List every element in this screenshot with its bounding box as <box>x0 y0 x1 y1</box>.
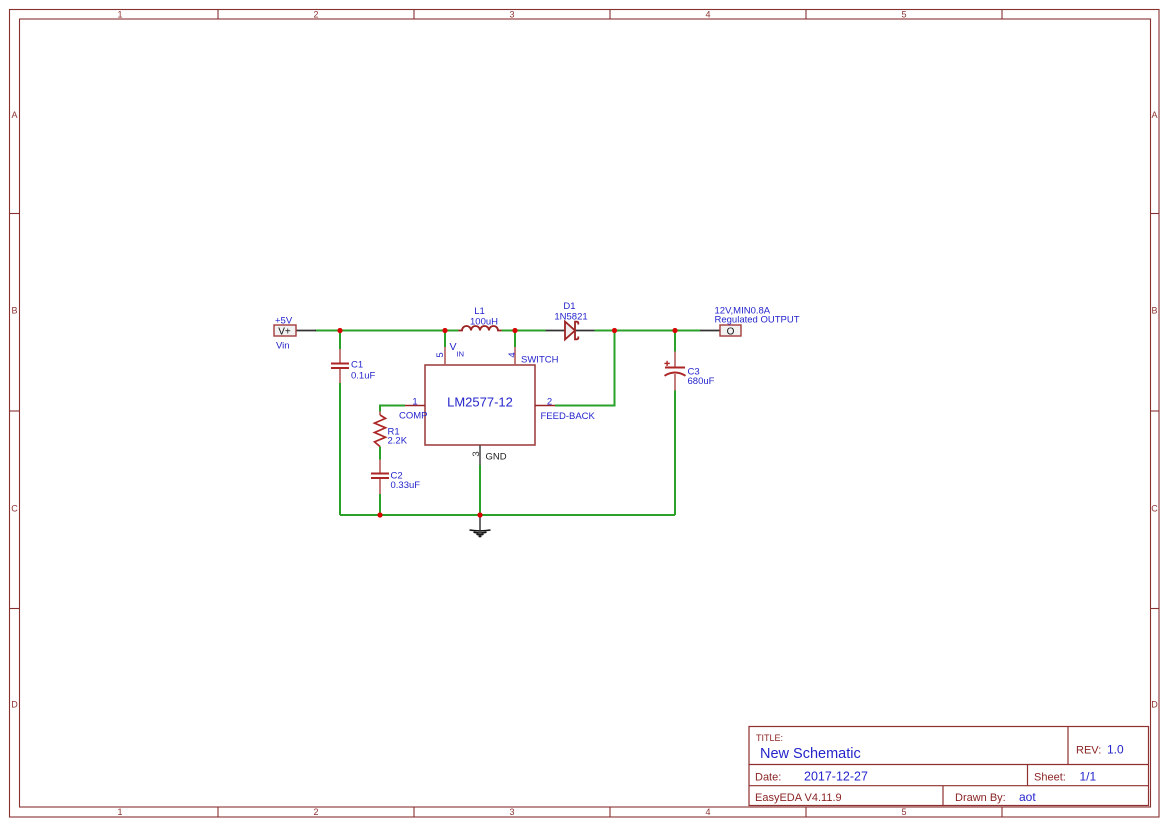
capacitor C1 <box>339 349 341 383</box>
svg-text:2: 2 <box>313 807 318 817</box>
svg-text:5: 5 <box>901 10 906 20</box>
svg-text:COMP: COMP <box>399 411 428 422</box>
svg-text:C1: C1 <box>351 360 363 371</box>
svg-text:680uF: 680uF <box>688 376 715 387</box>
svg-text:4: 4 <box>705 807 710 817</box>
svg-text:1: 1 <box>117 10 122 20</box>
svg-text:GND: GND <box>486 452 507 463</box>
svg-text:REV:: REV: <box>1076 745 1101 757</box>
wire C3 bottom to rail <box>674 391 676 516</box>
svg-text:B: B <box>1151 306 1157 316</box>
U1 pin 1 COMP <box>405 405 425 407</box>
U1 pin 2 FEED-BACK <box>535 405 555 407</box>
svg-text:1: 1 <box>117 807 122 817</box>
label C1 value <box>351 360 375 382</box>
svg-text:New Schematic: New Schematic <box>760 746 861 762</box>
wire net VIN top <box>315 330 700 332</box>
svg-text:5: 5 <box>435 352 446 357</box>
wire C1 bottom to ground rail <box>339 383 341 515</box>
U1 pin 3 GND <box>479 445 481 465</box>
junction C1/VIN <box>337 328 342 333</box>
wire C3 branch top <box>674 331 676 352</box>
svg-text:SWITCH: SWITCH <box>521 355 559 366</box>
svg-text:L1: L1 <box>474 306 485 317</box>
svg-text:4: 4 <box>705 10 710 20</box>
wire GND pin to rail <box>479 465 481 515</box>
svg-text:V+: V+ <box>278 327 291 338</box>
svg-text:D: D <box>11 700 18 710</box>
svg-text:O: O <box>727 327 735 338</box>
junction feedback tap <box>612 328 617 333</box>
svg-text:0.1uF: 0.1uF <box>351 371 375 382</box>
title block <box>749 727 1149 806</box>
svg-text:A: A <box>11 110 17 120</box>
op-amp/regulator U1 LM2577-12 body <box>425 365 535 445</box>
junction ground rail <box>477 512 482 517</box>
svg-text:V: V <box>450 341 457 353</box>
wire C2 to ground rail <box>379 494 381 515</box>
port V+ pin <box>296 330 316 332</box>
label L1 value <box>470 306 498 328</box>
svg-text:1/1: 1/1 <box>1080 770 1097 784</box>
svg-text:D1: D1 <box>563 301 575 312</box>
junction C2/ground rail <box>377 512 382 517</box>
port V+ <box>274 325 296 338</box>
svg-text:IN: IN <box>457 350 465 359</box>
inductor L1 <box>459 326 502 331</box>
wire FEED-BACK net <box>555 331 615 406</box>
svg-text:0.33uF: 0.33uF <box>391 480 421 491</box>
svg-text:4: 4 <box>507 352 518 357</box>
svg-text:D: D <box>1151 700 1158 710</box>
svg-text:C: C <box>1151 504 1158 514</box>
junction pin4/L1 <box>512 328 517 333</box>
resistor R1 <box>375 412 386 447</box>
wire ground rail bottom <box>340 514 675 516</box>
svg-text:2017-12-27: 2017-12-27 <box>804 770 868 784</box>
svg-text:1.0: 1.0 <box>1107 743 1124 757</box>
wire pin4 stub <box>514 331 516 348</box>
U1 pin 5 V_IN <box>444 347 446 365</box>
svg-text:3: 3 <box>509 807 514 817</box>
svg-text:5: 5 <box>901 807 906 817</box>
svg-text:2: 2 <box>547 396 552 407</box>
label C3 value <box>688 367 715 388</box>
svg-text:Vin: Vin <box>276 341 290 352</box>
wire C1 branch <box>339 331 341 350</box>
svg-text:+5V: +5V <box>275 316 293 327</box>
svg-text:Sheet:: Sheet: <box>1034 772 1066 784</box>
svg-text:EasyEDA V4.11.9: EasyEDA V4.11.9 <box>755 792 842 804</box>
svg-text:2.2K: 2.2K <box>388 436 408 447</box>
wire pin5 stub <box>444 331 446 348</box>
capacitor C3 polarized <box>674 352 676 391</box>
svg-text:1N5821: 1N5821 <box>554 312 587 323</box>
port O pin <box>700 330 720 332</box>
svg-text:Date:: Date: <box>755 772 781 784</box>
svg-text:B: B <box>11 306 17 316</box>
svg-text:TITLE:: TITLE: <box>756 733 783 743</box>
svg-text:3: 3 <box>471 451 482 456</box>
ground symbol <box>470 515 491 537</box>
svg-text:aot: aot <box>1019 790 1036 804</box>
label R1 value <box>388 427 408 447</box>
capacitor C2 <box>379 460 381 495</box>
svg-text:Regulated OUTPUT: Regulated OUTPUT <box>715 315 800 326</box>
diode D1 pins <box>546 330 595 332</box>
U1 pin 4 SWITCH <box>514 347 516 365</box>
label C2 value <box>391 471 421 492</box>
junction pin5/VIN <box>442 328 447 333</box>
wire COMP to R1 <box>380 406 405 412</box>
svg-text:C: C <box>11 504 18 514</box>
svg-text:A: A <box>1151 110 1157 120</box>
svg-text:Drawn By:: Drawn By: <box>955 792 1006 804</box>
diode D1 <box>565 322 578 340</box>
svg-text:100uH: 100uH <box>470 317 498 328</box>
svg-text:3: 3 <box>509 10 514 20</box>
svg-text:2: 2 <box>313 10 318 20</box>
wire R1 to C2 <box>379 447 381 460</box>
port O output <box>720 325 741 338</box>
junction C3 tap <box>672 328 677 333</box>
svg-text:1: 1 <box>412 396 417 407</box>
net label 12V,MIN0.8A Regulated OUTPUT <box>715 306 800 326</box>
svg-text:FEED-BACK: FEED-BACK <box>541 411 596 422</box>
label D1 value <box>554 301 587 323</box>
svg-text:LM2577-12: LM2577-12 <box>447 395 513 410</box>
